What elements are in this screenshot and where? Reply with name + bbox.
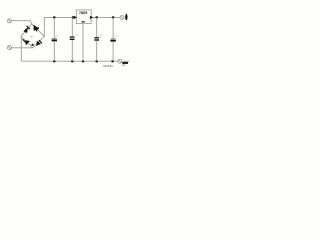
capacitor C4 (electrolytic) [110,17,118,61]
input connector J1 [7,19,11,23]
wire bridge - output riser [20,36,22,61]
wire J2 to bridge AC bottom [11,47,32,49]
svg-text:C4: C4 [114,34,118,38]
junction node (C4 top) [112,16,115,19]
diode D4 (bottom-right edge) [32,40,42,46]
junction node (C3 top) [95,16,98,19]
bridge edge wires [21,24,44,48]
junction node (C1 bottom) [53,60,56,63]
diode D3 (bottom-left edge) [23,39,30,45]
bottom rail wire [21,60,118,62]
diode D2 (top-right edge) [34,25,39,31]
junction node (rail end) [111,60,114,63]
svg-text:C3: C3 [99,34,103,38]
output marker (+ flag) [125,13,127,20]
pin IN arrow [74,16,77,19]
capacitor C3 (ceramic) [94,17,103,61]
svg-text:C2: C2 [75,33,79,37]
bridge rectifier B1 [21,24,44,48]
junction node (C1 top) [53,16,56,19]
input connector J2 [7,46,11,50]
output connector J3 (+) [120,16,124,20]
voltage regulator U1 [74,10,94,61]
junction node (C2 top) [72,16,75,19]
wire U1 gnd lead [82,24,84,62]
junction node (C3 bottom) [95,60,98,63]
diode D1 (top-left edge) [24,26,30,33]
svg-text:C1: C1 [55,34,59,38]
pin GND mark [82,21,85,22]
ground [122,62,128,66]
svg-text:7805: 7805 [79,11,87,15]
svg-text:04-03-04: 04-03-04 [103,64,113,68]
wire J1 to bridge AC top [11,21,32,24]
capacitor C2 (ceramic) [70,17,79,61]
top rail wire (after regulator) [91,16,120,18]
output connector J4 (-) [118,59,122,63]
pin OUT arrow [90,16,93,19]
svg-text:B1: B1 [30,34,34,38]
wire bridge + output riser [44,17,76,36]
wire J4 to ground [122,60,129,62]
capacitor C1 (electrolytic) [52,17,60,61]
junction node (U1 gnd) [82,60,85,63]
junction node (C2 bottom) [71,60,74,63]
